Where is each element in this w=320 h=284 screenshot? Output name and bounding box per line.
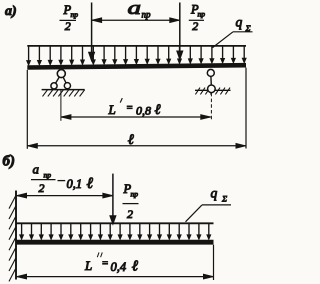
svg-text:=: = — [102, 259, 109, 270]
left support ground hatching — [43, 90, 85, 97]
dimension l (span) — [27, 144, 246, 149]
svg-text:пр: пр — [142, 10, 152, 20]
label a_пр — [128, 0, 152, 20]
distributed load q (fig a): arrows — [27, 46, 246, 65]
force Pпр/2 right : line of action — [179, 3, 181, 52]
svg-text:2: 2 — [192, 19, 198, 33]
svg-text:2: 2 — [127, 207, 133, 221]
svg-text:0,4: 0,4 — [111, 260, 127, 274]
svg-text:q: q — [236, 15, 243, 30]
svg-text:ℓ: ℓ — [155, 102, 161, 118]
minus 0,1l — [58, 175, 94, 192]
label L' = 0,8l — [108, 98, 161, 118]
extension line: right end of beam (fig a) — [245, 68, 247, 149]
svg-text:L: L — [84, 258, 92, 273]
distributed load q (fig a): top line — [27, 45, 246, 47]
svg-text:пр: пр — [198, 10, 206, 19]
svg-text:L: L — [108, 102, 116, 117]
beam (fig b) cantilever — [16, 240, 214, 245]
extension line: right end of beam (fig b) — [213, 245, 215, 280]
label q_Σ (fig b) with leader — [186, 186, 232, 222]
distributed load q (fig b): top line — [16, 222, 214, 224]
svg-text:б): б) — [3, 154, 15, 170]
label q_Σ (fig a) with leader — [213, 15, 253, 48]
beam (fig a) — [27, 63, 246, 70]
wall support line — [15, 191, 17, 280]
dimension a_пр — [92, 18, 180, 23]
svg-text:0,1: 0,1 — [67, 177, 83, 191]
svg-text:q: q — [211, 186, 218, 201]
distributed load q (fig b): arrows — [20, 223, 211, 239]
wall hatching — [9, 196, 16, 281]
label L'' = 0,4l — [84, 252, 138, 274]
svg-text:пр: пр — [71, 10, 79, 19]
svg-text:2: 2 — [65, 19, 71, 33]
svg-text:а): а) — [5, 4, 17, 19]
svg-text:2: 2 — [39, 181, 45, 195]
dimension L' = 0.8l — [61, 115, 211, 120]
fraction Pпр/2 left — [60, 3, 79, 33]
extension line below right support — [210, 93, 212, 120]
svg-text:ℓ: ℓ — [132, 259, 138, 275]
dimension a_пр/2 - 0,1l — [17, 193, 113, 198]
dimension L'' = 0.4l — [17, 274, 214, 279]
svg-text:ℓ: ℓ — [128, 132, 134, 148]
svg-text:пр: пр — [131, 190, 139, 199]
svg-text:0,8: 0,8 — [136, 103, 151, 117]
svg-text:пр: пр — [44, 171, 52, 180]
svg-text:Σ: Σ — [221, 194, 227, 204]
extension line: left end of beam (fig a) — [26, 70, 28, 149]
fraction Pпр/2 right — [189, 3, 205, 33]
extension line below left support — [60, 90, 62, 121]
force Pпр/2 left : line of action — [91, 3, 93, 54]
force Pпр/2 (fig b): line of action — [112, 174, 114, 218]
left support: pin on rollers — [42, 70, 85, 90]
svg-text:a: a — [128, 0, 142, 19]
fraction Pпр/2 (fig b) — [123, 182, 139, 221]
right support: link with two hinges — [195, 69, 231, 94]
fraction a_пр/2 — [31, 162, 56, 196]
svg-text:ℓ: ℓ — [87, 175, 94, 192]
svg-text:=: = — [126, 103, 133, 114]
svg-text:a: a — [33, 162, 40, 177]
